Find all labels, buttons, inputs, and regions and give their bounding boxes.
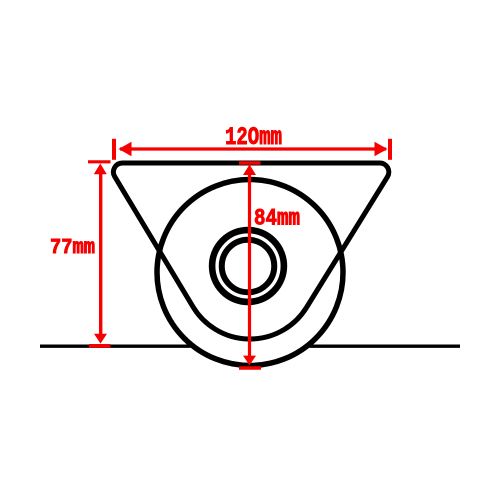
- svg-text:12Omm: 12Omm: [225, 123, 282, 152]
- dim 84mm down arrowhead: [243, 356, 256, 366]
- dim 84mm top tick: [239, 161, 261, 164]
- dim 120mm right arrowhead: [375, 142, 388, 156]
- dim 120mm right tick: [388, 139, 392, 160]
- dim 77mm up arrowhead: [94, 164, 107, 175]
- dim 77mm top tick: [88, 160, 111, 163]
- ground line: [40, 345, 191, 348]
- wheel outer circle: [157, 180, 343, 366]
- dim 77mm bottom tick: [89, 344, 111, 348]
- dim 77mm down arrowhead: [94, 334, 107, 344]
- hub outer ring: [212, 230, 284, 302]
- dim 84mm bottom tick: [239, 366, 261, 370]
- hub bore: [222, 240, 275, 293]
- dim 84mm up arrowhead: [243, 165, 256, 176]
- bracket with groove arc: [113, 163, 388, 339]
- svg-text:77mm: 77mm: [50, 236, 95, 260]
- dim 120mm left tick: [112, 139, 116, 160]
- dim 77mm line: [99, 168, 102, 338]
- svg-text:84mm: 84mm: [254, 206, 300, 232]
- dim 120mm line: [120, 147, 386, 150]
- dim 84mm line: [248, 168, 251, 360]
- dim 120mm left arrowhead: [119, 142, 132, 156]
- ground line right: [310, 345, 461, 348]
